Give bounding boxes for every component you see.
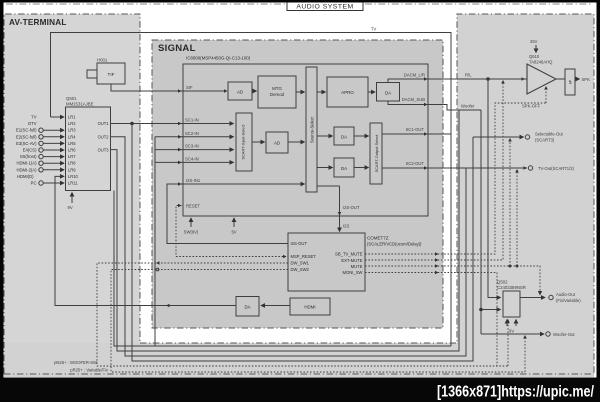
black photo frame: right (597, 0, 600, 402)
svg-text:(SCART3): (SCART3) (535, 138, 555, 143)
SIGNAL dash-dot border (152, 40, 443, 328)
supply 25V (530, 39, 538, 53)
wire SC feed vertical (154, 137, 156, 346)
svg-text:TIF: TIF (108, 72, 115, 77)
svg-text:Audio-Out: Audio-Out (556, 292, 576, 297)
terminal circle PC (39, 181, 43, 185)
junction OUT1 branch (130, 122, 134, 126)
svg-text:DW_SW1: DW_SW1 (291, 260, 310, 265)
junction R/L branch (486, 77, 490, 81)
output TV-Out (SCART1/2) (528, 166, 574, 171)
svg-text:(Fix/Variable): (Fix/Variable) (556, 298, 581, 303)
wires terminals to Q501 (43, 130, 64, 183)
terminal circle E1 (39, 128, 43, 132)
svg-text:25V: 25V (530, 39, 538, 44)
svg-text:LR8: LR8 (68, 161, 76, 166)
svg-text:(SCALER/VCD(ucom/Delay)): (SCALER/VCD(ucom/Delay)) (367, 242, 422, 247)
svg-text:MUTE: MUTE (351, 264, 363, 269)
wire Source-Select to DA SC1 (317, 135, 333, 137)
amplifier Q610 TA8246AHQ (527, 54, 556, 94)
wire APRO to DA (368, 91, 375, 93)
dac DA (SC2) (334, 158, 354, 177)
svg-text:COMET7Z: COMET7Z (367, 236, 389, 241)
selector SCART-Output-Select (370, 123, 382, 184)
junction MUTE branch 2 (516, 265, 519, 268)
svg-text:PC: PC (31, 181, 37, 186)
svg-text:DTV: DTV (28, 121, 37, 126)
wire MTG to Source-Select (296, 91, 305, 93)
svg-text:LR9: LR9 (68, 167, 76, 172)
wire SCART-Input-Select to AD (252, 141, 265, 143)
svg-text:SC2-IN: SC2-IN (185, 131, 199, 136)
control DW_SW2 dashed to Variable/Fix rail (111, 270, 525, 373)
page top dash-dot border (6, 3, 592, 5)
control MSP_RESET dashed (176, 256, 286, 258)
wire woofer branch into Q502 (481, 309, 501, 311)
svg-text:OUT3: OUT3 (98, 147, 110, 152)
svg-text:TV-Out(SCART1/2): TV-Out(SCART1/2) (538, 166, 575, 171)
wire DA SC1 to SCART-Output-Select (354, 135, 369, 137)
svg-text:OUT2: OUT2 (98, 135, 110, 140)
terminal circle E2 (39, 135, 43, 139)
svg-text:TV: TV (371, 27, 377, 32)
wire AD to Source-Select (288, 141, 305, 143)
output Audio-Out (Fix/Variable) (520, 292, 581, 303)
svg-text:Q501: Q501 (66, 96, 77, 101)
svg-text:MSP_RESET: MSP_RESET (291, 254, 317, 259)
svg-text:Demod: Demod (270, 92, 285, 97)
svg-text:IC8000(MSP4450G-QI-C13-100): IC8000(MSP4450G-QI-C13-100) (186, 56, 251, 61)
junction MUTE branch 1 (509, 265, 512, 268)
wire TV net top loop (51, 27, 452, 347)
svg-text:Woofer: Woofer (461, 104, 475, 109)
svg-text:LR2: LR2 (68, 121, 76, 126)
svg-text:8P: 8P (569, 79, 573, 84)
wire HDMI to DA (261, 305, 290, 307)
svg-text:AD: AD (274, 141, 280, 146)
wire OUT1 to SC1-IN (111, 123, 234, 125)
Q501 pin labels OUT1-OUT3 (98, 121, 110, 152)
svg-text:DACM_L/R: DACM_L/R (404, 73, 425, 78)
wire DACM_L/R output (388, 73, 525, 83)
svg-text:I2S-IN1: I2S-IN1 (186, 178, 201, 183)
SIGNAL section fill (152, 40, 443, 328)
svg-text:LR11: LR11 (68, 181, 78, 186)
AV switch Q501 MM1531AJBE (66, 96, 111, 191)
svg-text:OUT1: OUT1 (98, 121, 110, 126)
AUDIO SYSTEM title box (287, 1, 363, 11)
svg-text:LR4: LR4 (68, 134, 76, 139)
svg-text:R/L: R/L (465, 73, 472, 78)
svg-text:SC2-OUT: SC2-OUT (406, 161, 425, 166)
wire Source-Select to DA SC2 (317, 167, 333, 169)
selector SCART-Input-Select (236, 113, 252, 171)
wire TIF SIF output to IC8000 (111, 84, 226, 91)
terminal circle E4 (39, 148, 43, 152)
svg-text:LR10: LR10 (68, 174, 79, 179)
svg-text:pR25+ : Variable/Fix: pR25+ : Variable/Fix (70, 368, 109, 373)
svg-text:HDMI: HDMI (304, 305, 315, 310)
COMET pin labels right (335, 252, 363, 276)
svg-text:9V: 9V (509, 329, 514, 334)
bottom shared dash-dot border (4, 373, 594, 375)
svg-text:APRO: APRO (341, 90, 354, 95)
terminal circle HDMI-2 (39, 168, 43, 172)
wire OUT2 loop to TV-Out (111, 137, 467, 356)
wire SC4-IN (155, 161, 234, 163)
svg-text:SC3-IN: SC3-IN (185, 144, 199, 149)
svg-text:Source-Select: Source-Select (310, 116, 315, 143)
svg-text:TV: TV (31, 115, 37, 120)
svg-text:RESET: RESET (186, 204, 200, 209)
right section dash-dot border (140, 14, 594, 374)
AV-TERMINAL dash-dot border (4, 14, 140, 374)
dac DA (main) (377, 83, 400, 102)
control EXT-MUTE dashed to R/L mute (365, 82, 503, 260)
svg-text:LR1: LR1 (68, 115, 76, 120)
wire R/L vertical to Q502 (488, 79, 501, 298)
svg-text:SC1-OUT: SC1-OUT (406, 127, 425, 132)
svg-text:5V: 5V (231, 230, 236, 235)
dac DA (SC1) (334, 127, 354, 145)
svg-text:E4(CS): E4(CS) (23, 148, 37, 153)
control MUTE dashed to output mutes (365, 266, 540, 291)
wire SC3-IN (155, 149, 234, 151)
output Selectable-Out (SCART3) (473, 132, 564, 143)
wire HDMI(D) from DA (55, 176, 236, 305)
supply SW(9V) into IC8000 (184, 218, 199, 235)
svg-text:TA8246AHQ: TA8246AHQ (529, 60, 553, 65)
svg-text:DA: DA (341, 166, 347, 171)
svg-text:HDMI-1(A): HDMI-1(A) (16, 161, 37, 166)
bottom routing region fill (4, 343, 594, 377)
svg-text:DACM_SUB: DACM_SUB (402, 97, 425, 102)
speaker connector (556, 69, 590, 95)
output Woofer-Out (481, 332, 575, 337)
demod MTG (258, 76, 296, 108)
processor APRO (327, 77, 368, 107)
svg-text:pN25+ : WOOFER-SW: pN25+ : WOOFER-SW (54, 360, 97, 365)
black photo frame: top (0, 0, 600, 3)
supply 5V into IC8000 (231, 218, 236, 235)
svg-text:LR5: LR5 (68, 141, 76, 146)
tuner TIF H001 (87, 58, 125, 85)
svg-text:H001: H001 (97, 58, 108, 63)
control MUTE arrow onto Audio-Out (538, 291, 542, 296)
control DW_SW1 dashed to WOOFER-SW rail (97, 263, 508, 366)
svg-text:Woofer-Out: Woofer-Out (553, 332, 575, 337)
IC8000 MSP4450G (183, 56, 428, 217)
svg-text:AD: AD (237, 90, 243, 95)
control RESET dashed (176, 206, 182, 257)
svg-text:SIGNAL: SIGNAL (158, 43, 196, 54)
microcontroller COMET (288, 233, 422, 291)
Q501 9V supply (68, 193, 73, 211)
svg-text:C2403389NSR: C2403389NSR (497, 285, 526, 290)
terminal circle HDMI-1 (39, 161, 43, 165)
wire OUT3 loop to woofer row (111, 110, 460, 351)
AV-TERMINAL section fill (4, 14, 140, 377)
svg-text:SC4-IN: SC4-IN (185, 156, 199, 161)
Q501 pin labels LR1-LR11 (68, 115, 79, 186)
svg-text:HDMI(D): HDMI(D) (17, 174, 34, 179)
svg-text:MONI_SW: MONI_SW (342, 270, 362, 275)
control SPK-OFF arrow into amp (522, 86, 548, 109)
svg-text:DA: DA (341, 135, 347, 140)
watermark bar (0, 378, 600, 402)
pin label SC2-OUT and wire to TV-Out (382, 161, 527, 170)
wire Source-Select to APRO (317, 91, 326, 93)
svg-text:LR6: LR6 (68, 148, 76, 153)
svg-text:E3(SC-AV): E3(SC-AV) (16, 141, 37, 146)
svg-text:SCART-Input-Select: SCART-Input-Select (241, 124, 246, 160)
svg-text:AUDIO SYSTEM: AUDIO SYSTEM (296, 3, 353, 10)
svg-text:I2S: I2S (343, 224, 349, 229)
svg-text:I2S-OUT: I2S-OUT (343, 205, 360, 210)
svg-text:SB_TV_MUTE: SB_TV_MUTE (335, 252, 363, 257)
interface HDMI (290, 298, 330, 315)
svg-text:MM1531AJBE: MM1531AJBE (66, 101, 94, 106)
svg-text:E2(SC-full): E2(SC-full) (16, 134, 37, 139)
control MUTE branch to TV-Out (516, 171, 518, 266)
svg-text:SPK: SPK (582, 77, 591, 82)
svg-text:MTG: MTG (272, 86, 282, 91)
wire R/L into amp (443, 78, 527, 80)
wire I2S-IN1 loop from COMET (167, 184, 305, 244)
svg-text:Selectable-Out: Selectable-Out (535, 132, 564, 137)
control MONI_SW dashed (365, 273, 497, 367)
svg-text:DA: DA (385, 91, 391, 96)
wire Woofer vertical (480, 110, 482, 334)
svg-text:Q502: Q502 (497, 280, 508, 285)
svg-text:HDMI-2(A): HDMI-2(A) (16, 167, 37, 172)
terminal circle E3 (39, 141, 43, 145)
control MUTE branch to Selectable-Out (509, 140, 511, 266)
svg-text:DA: DA (244, 305, 250, 310)
svg-text:DW_SW2: DW_SW2 (291, 267, 310, 272)
svg-text:[1366x871]https://upic.me/: [1366x871]https://upic.me/ (437, 384, 594, 401)
junction woofer to Q502 (479, 308, 483, 312)
dac DA (HDMI) (236, 297, 259, 317)
adc AD (SIF) (228, 82, 252, 100)
wire SC2-IN (155, 136, 234, 138)
wire DA SC2 to SCART-Output-Select (354, 167, 369, 169)
wire DACM_SUB output (388, 97, 481, 110)
selector Source-Select (306, 67, 317, 192)
wire OUT1 loop to Selectable-Out (132, 124, 473, 362)
wire I2S-OUT down to COMET (317, 186, 360, 232)
switch Q502 C2403389NSR (497, 280, 526, 318)
svg-text:SIF: SIF (186, 85, 193, 90)
svg-text:SC1-IN: SC1-IN (185, 118, 199, 123)
input terminal labels (16, 115, 37, 186)
svg-text:SCART-Output Select: SCART-Output Select (374, 134, 379, 173)
svg-text:LR7: LR7 (68, 154, 76, 159)
wire AD to MTG (252, 90, 257, 92)
svg-text:LR3: LR3 (68, 128, 76, 133)
adc AD (SCART) (266, 132, 288, 153)
speaker/output section fill (right) (457, 14, 594, 377)
svg-text:Q610: Q610 (529, 54, 540, 59)
svg-text:E1(SC-full): E1(SC-full) (16, 128, 37, 133)
control Variable/Fix rail up to Woofer-Out row (524, 337, 526, 372)
terminal circle E5 (39, 154, 43, 158)
svg-text:E5(front): E5(front) (20, 154, 37, 159)
svg-text:EXT-MUTE: EXT-MUTE (341, 258, 362, 263)
pin label SC1-OUT and wire (382, 127, 451, 136)
control SB_TV_MUTE dashed to SPK-OFF (365, 103, 546, 254)
black photo frame: left (0, 0, 4, 402)
COMET pin labels left (291, 241, 317, 272)
wire bottom loop to TV net vertical (114, 191, 451, 347)
svg-text:9V: 9V (68, 205, 73, 210)
supply 9V into Q502 (507, 320, 516, 334)
control WOOFER-SW rail up into Q502 (507, 321, 509, 366)
svg-text:SW(9V): SW(9V) (184, 230, 199, 235)
svg-text:AV-TERMINAL: AV-TERMINAL (9, 18, 67, 27)
svg-text:SPK-OFF: SPK-OFF (522, 104, 541, 109)
svg-text:I2S-OUT: I2S-OUT (291, 241, 308, 246)
